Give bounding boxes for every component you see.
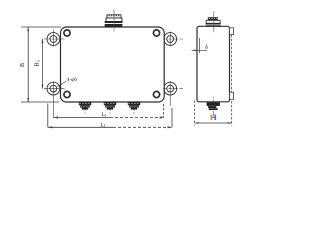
svg-text:1: 1 [105, 114, 107, 118]
svg-text:1: 1 [104, 124, 106, 128]
svg-text:1: 1 [36, 60, 41, 62]
svg-text:B: B [20, 63, 26, 67]
svg-text:4-φ6: 4-φ6 [67, 77, 78, 83]
svg-text:B: B [34, 62, 40, 66]
svg-text:δ: δ [205, 45, 208, 51]
